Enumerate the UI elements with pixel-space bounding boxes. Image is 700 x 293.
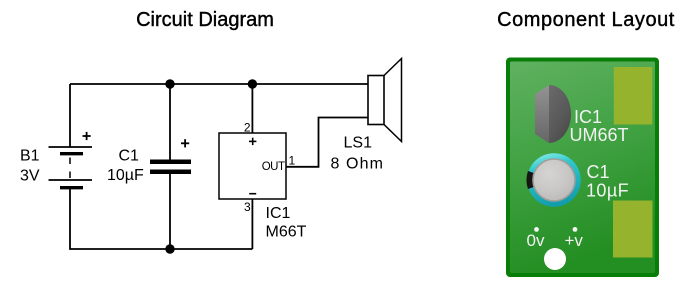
svg-text:OUT: OUT xyxy=(262,161,285,173)
svg-text:3: 3 xyxy=(244,200,251,214)
svg-text:C1: C1 xyxy=(119,148,140,165)
svg-text:Circuit Diagram: Circuit Diagram xyxy=(136,9,274,31)
svg-text:3V: 3V xyxy=(20,168,40,185)
svg-text:M66T: M66T xyxy=(266,224,307,241)
svg-text:Component Layout: Component Layout xyxy=(497,9,675,31)
svg-text:C1: C1 xyxy=(587,162,610,182)
svg-text:+v: +v xyxy=(565,231,584,250)
svg-text:10µF: 10µF xyxy=(586,181,629,201)
svg-text:UM66T: UM66T xyxy=(570,125,629,145)
svg-text:LS1: LS1 xyxy=(344,135,373,152)
svg-text:8 Ohm: 8 Ohm xyxy=(331,156,385,173)
svg-text:2: 2 xyxy=(244,121,251,135)
svg-text:1: 1 xyxy=(289,154,296,168)
svg-text:B1: B1 xyxy=(20,148,40,165)
svg-text:0v: 0v xyxy=(527,231,545,250)
svg-text:10µF: 10µF xyxy=(107,167,144,184)
svg-text:IC1: IC1 xyxy=(266,205,291,222)
